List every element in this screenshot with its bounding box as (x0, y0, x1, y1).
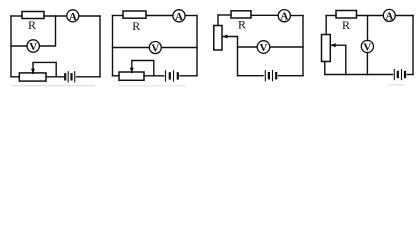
ammeter A4 (383, 9, 395, 21)
wire: right side (99, 16, 101, 77)
wire: top left segment (326, 15, 336, 17)
wiper arrowhead RP2 (130, 68, 134, 73)
battery B1 short plate 1 (64, 74, 66, 79)
battery B3 long plate 2 (272, 71, 274, 81)
wire: ammeter to top-right corner (290, 15, 303, 17)
battery B3 short plate 1 (268, 73, 270, 78)
wire: right side (412, 16, 414, 75)
ammeter A1 (67, 10, 79, 22)
resistor R2 (123, 11, 146, 18)
wire: top left segment (11, 15, 22, 17)
resistor R4 (336, 11, 357, 19)
wire: R4 to ammeter (357, 15, 384, 17)
ammeter A3 (278, 10, 290, 22)
scan smudge under circuit 4 (388, 84, 404, 86)
wire: rheostat to battery (144, 75, 164, 77)
svg-text:R: R (28, 18, 36, 32)
voltmeter V2 (149, 42, 161, 54)
rheostat RP1 (19, 73, 46, 81)
wire: voltmeter to right side (270, 46, 303, 48)
battery B4 long plate 1 (393, 69, 395, 79)
wire: right side (196, 16, 198, 76)
battery B3 short plate 2 (275, 73, 277, 78)
battery B4 short plate 2 (404, 72, 406, 77)
wire: left drop to rheostat (325, 16, 327, 35)
svg-text:V: V (151, 43, 159, 55)
wire: top left segment (113, 15, 124, 17)
svg-text:R: R (342, 18, 350, 32)
battery B1 long plate 1 (67, 72, 69, 82)
wire: left side (112, 16, 114, 76)
battery B2 short plate 2 (177, 73, 179, 78)
wire: ammeter to top-right corner (185, 15, 197, 17)
wire: voltmeter branch right (161, 47, 197, 49)
wire: R3 to ammeter (251, 14, 278, 16)
wire: top left segment (218, 14, 231, 16)
battery B1 long plate 2 (74, 72, 76, 82)
wire: right side (302, 16, 304, 76)
wire: voltmeter to junction riser (39, 16, 55, 46)
svg-text:A: A (385, 10, 393, 22)
wiper arm wire RP1 (33, 62, 56, 76)
battery B4 short plate 1 (397, 72, 399, 77)
rheostat RP3 (214, 26, 222, 51)
wire: voltmeter riser from top wire (367, 16, 369, 41)
wire: wiper node to voltmeter (238, 46, 258, 48)
battery B2 long plate 1 (165, 71, 167, 81)
wiper arm wire RP2 (132, 61, 154, 76)
wire: bottom-left segment (113, 75, 120, 77)
voltmeter V4 (361, 40, 373, 52)
wire: rheostat to battery (46, 76, 63, 78)
rheostat RP2 (119, 72, 144, 80)
battery B1 short plate 2 (70, 74, 72, 79)
svg-text:A: A (69, 11, 77, 23)
wire: bottom segment left of battery (325, 74, 393, 76)
wire: voltmeter drop to bottom wire (366, 53, 368, 75)
wire: battery to bottom-right corner (77, 76, 101, 78)
svg-text:R: R (238, 17, 246, 31)
wire: bottom-left segment (11, 76, 19, 78)
battery B3 long plate 1 (264, 71, 266, 81)
battery B4 long plate 2 (401, 69, 403, 79)
ammeter A2 (173, 10, 185, 22)
wire: ammeter to top-right corner (395, 15, 413, 17)
resistor R1 (22, 12, 44, 19)
wire: battery to bottom-right corner (279, 75, 303, 77)
svg-text:A: A (175, 11, 183, 23)
wiper arrowhead RP1 (31, 69, 35, 74)
voltmeter V3 (257, 41, 270, 54)
svg-text:V: V (260, 42, 268, 54)
wire: R2 to ammeter (146, 15, 173, 17)
wire: voltmeter branch left (113, 47, 150, 49)
wiper arm wire RP3 (223, 37, 238, 76)
wire: bottom-left segment (238, 75, 264, 77)
battery B2 short plate 1 (169, 73, 171, 78)
wire: R1 to ammeter (44, 15, 67, 17)
rheostat RP4 (322, 35, 331, 62)
scan smudge under circuit 2 (118, 85, 185, 87)
wire: ammeter to top-right corner (79, 15, 100, 17)
wire: voltmeter branch left (11, 45, 27, 47)
resistor R3 (231, 11, 251, 18)
voltmeter V1 (27, 40, 39, 52)
svg-text:V: V (363, 42, 371, 54)
scan smudge under circuit 1 (13, 85, 94, 87)
svg-text:R: R (132, 19, 140, 33)
wire: battery to bottom-right corner (180, 75, 197, 77)
battery B2 long plate 2 (173, 71, 175, 81)
wire: rheostat bottom stub (324, 62, 326, 75)
wire: left side (10, 16, 12, 77)
wiper arm wire RP4 (331, 45, 346, 74)
wire: left drop to rheostat (217, 15, 219, 26)
svg-text:A: A (280, 11, 288, 23)
wire: battery to bottom-right corner (407, 74, 413, 76)
svg-text:V: V (29, 41, 37, 53)
wiper arrowhead RP4 (330, 43, 335, 47)
wiper arrowhead RP3 (222, 35, 227, 39)
